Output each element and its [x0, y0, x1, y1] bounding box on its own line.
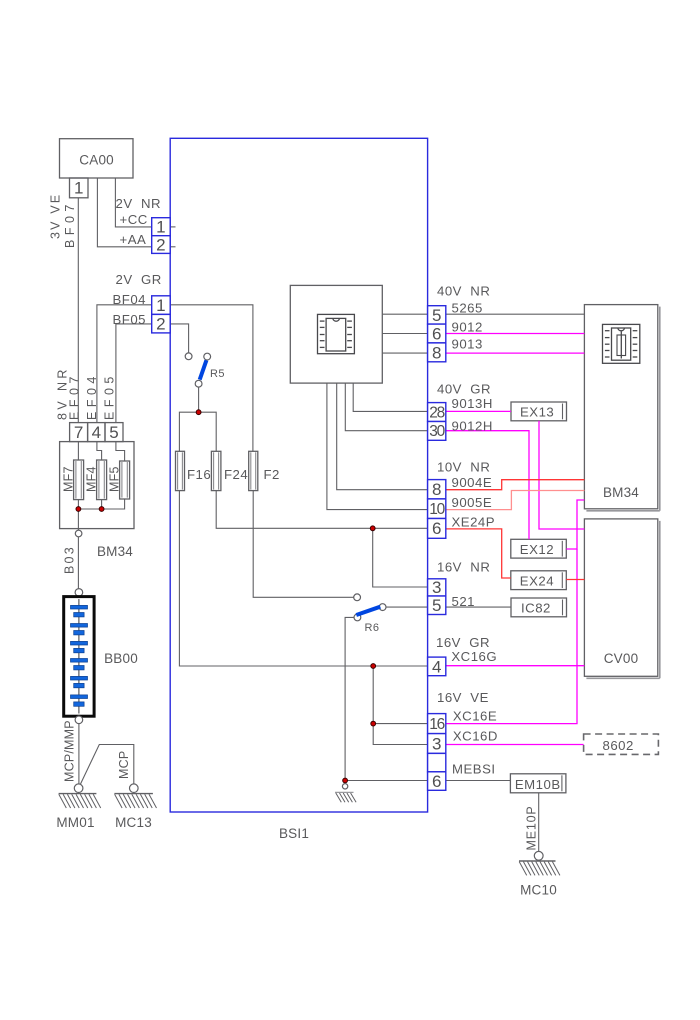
svg-text:F24: F24 [224, 467, 248, 482]
wire BF07 from CA00 pin1 to BM34 pin 7 [77, 198, 79, 423]
connector circle BB00 top [75, 589, 83, 597]
unused pin of BSI1 [428, 753, 446, 771]
svg-text:MC13: MC13 [115, 815, 152, 830]
wire CA00 pin1 to +AA (pin 2 BSI1) [97, 178, 151, 247]
svg-text:8602: 8602 [603, 738, 634, 753]
svg-text:40V NR: 40V NR [437, 284, 490, 299]
fuse-module icon inside BM34 [603, 324, 640, 363]
wire node N2 to pin 3 (16V NR) [373, 528, 428, 587]
svg-text:R6: R6 [365, 622, 380, 634]
maxi fuse MF5 [120, 461, 130, 499]
fuse carrier box BM34 (left) [60, 442, 134, 529]
svg-text:4: 4 [92, 423, 101, 442]
wire EX13 to CV00 (magenta) [539, 421, 584, 529]
svg-text:6: 6 [432, 772, 441, 791]
pin 10 of BSI1 (9005E) [428, 499, 446, 519]
wire internal module to pin 30 (9012H) [345, 383, 427, 431]
svg-text:10: 10 [429, 501, 445, 518]
connector box EX12 [511, 539, 567, 558]
svg-text:BF07: BF07 [63, 200, 77, 248]
svg-text:10V NR: 10V NR [437, 460, 490, 475]
wire pin 4 to MF4 [97, 442, 102, 460]
svg-text:3: 3 [432, 578, 441, 597]
pin 16 of BSI1 (XC16E) [428, 714, 446, 734]
svg-text:EX13: EX13 [520, 405, 554, 420]
module box BM34 (right) [584, 305, 659, 511]
ground MM01 [59, 784, 101, 808]
svg-text:EX24: EX24 [520, 573, 554, 588]
node N5 junction MEBSI/ground [343, 778, 348, 783]
wire MCP link MM01 to ground MC13 [81, 745, 134, 786]
svg-text:16V NR: 16V NR [437, 560, 490, 575]
connector circle BB00 bottom [75, 716, 83, 724]
svg-text:MF7: MF7 [62, 466, 76, 492]
svg-text:BM34: BM34 [603, 485, 639, 500]
optional module box 8602 (dashed) [584, 734, 659, 754]
internal module box of BSI1 [290, 285, 382, 383]
wire BF04 from BSI1 pin 1 to BM34 pin 4 [97, 305, 152, 423]
svg-text:BB00: BB00 [104, 651, 138, 666]
svg-text:IC82: IC82 [521, 601, 551, 616]
wire pin 7 to MF7 [77, 442, 79, 460]
pin 8 of BSI1 (9013) [428, 343, 446, 362]
svg-text:8: 8 [432, 343, 441, 362]
svg-text:BF05: BF05 [113, 312, 147, 327]
svg-text:BM34: BM34 [97, 544, 133, 559]
pin 5 of BM34 [105, 423, 123, 442]
wire BSI1 pin 2 to switch R5 [170, 324, 188, 353]
wire 9005E pin 10 to BM34 (salmon) [446, 491, 585, 510]
svg-text:2: 2 [156, 235, 165, 254]
svg-text:2: 2 [156, 315, 165, 334]
wire MCP/MMP from BB00 to ground MM01 [78, 720, 80, 786]
wire ME10P from EM10B to ground MC10 [538, 793, 540, 853]
svg-text:R5: R5 [210, 368, 225, 380]
wire CA00 to +CC (pin 1 BSI1) [115, 178, 151, 227]
pin 28 of BSI1 (9013H) [428, 403, 446, 422]
svg-text:9012: 9012 [452, 320, 483, 335]
pin 3 of BSI1 (16V NR) [428, 578, 446, 597]
svg-text:MCP: MCP [117, 751, 131, 779]
connector box CA00 [60, 139, 134, 178]
fuse F16 [176, 451, 185, 490]
battery BB00 [64, 597, 94, 717]
node N1 junction below R5 [196, 410, 201, 415]
maxi fuse MF4 [97, 460, 107, 500]
wire 9004E pin 8 to BM34 (red) [446, 480, 585, 490]
svg-text:9005E: 9005E [452, 495, 493, 510]
wire EX24 to CV00 (red) [566, 579, 584, 581]
wire node N4 to pin 3 XC16D [373, 723, 427, 725]
svg-text:MM01: MM01 [56, 815, 94, 830]
svg-text:6: 6 [432, 325, 441, 344]
pin 6 of BSI1 (XE24P) [428, 519, 446, 539]
svg-text:CV00: CV00 [604, 651, 639, 666]
svg-text:MF4: MF4 [85, 466, 99, 492]
wire R5 to node N1 [198, 387, 200, 412]
node N3 junction XC16G branch [371, 664, 376, 669]
wire R6 to pin 5 (521) [386, 606, 428, 608]
pin 1 of BSI1 (BF04) [152, 296, 171, 315]
wire R6 to ground node N5 [345, 617, 354, 780]
wire 9013H pin 28 to EX13 (magenta) [446, 410, 511, 412]
svg-text:EF07: EF07 [67, 372, 81, 420]
svg-text:16: 16 [429, 716, 444, 733]
svg-text:EX12: EX12 [520, 542, 554, 557]
connector box EX24 [511, 571, 567, 590]
svg-text:XC16G: XC16G [451, 649, 497, 664]
svg-text:B03: B03 [63, 545, 77, 574]
wire internal module to pin 6 (9012) [382, 333, 427, 335]
wire BF05 from BSI1 pin 2 to BM34 pin 5 [116, 324, 152, 423]
svg-text:3V VE: 3V VE [49, 193, 63, 239]
wire 9012H pin 30 to EX12 (magenta) [446, 431, 529, 540]
pin 7 of BM34 [70, 423, 88, 442]
wire 9012 pin 6 to BM34 (magenta) [446, 333, 585, 335]
svg-text:5: 5 [109, 423, 118, 442]
svg-text:1: 1 [156, 296, 165, 315]
wire fuse outputs bus [78, 499, 124, 509]
pin 4 of BM34 [88, 423, 105, 442]
svg-text:EF04: EF04 [85, 372, 99, 420]
fuse F24 [211, 451, 221, 490]
svg-text:+CC: +CC [120, 212, 148, 227]
svg-text:5265: 5265 [452, 301, 483, 316]
pin 3 of BSI1 (XC16D) [428, 734, 446, 754]
wire MF4 lead [101, 500, 103, 509]
wire internal module to pin 10 (9005E) [327, 383, 428, 510]
wire pin 5 to MF5 [116, 442, 125, 461]
svg-text:4: 4 [432, 657, 441, 676]
svg-text:XC16E: XC16E [453, 709, 497, 724]
svg-text:8: 8 [432, 480, 441, 499]
wire F2 to switch R6 [253, 491, 354, 598]
svg-text:MC10: MC10 [520, 883, 557, 898]
IC chip icon inside internal module [318, 314, 355, 353]
wire node N1 to fuse F16 [179, 412, 198, 451]
ground MC10 [519, 851, 560, 875]
ground inside BSI1 [335, 784, 356, 803]
svg-text:6: 6 [432, 519, 441, 538]
connector circle B03 [75, 530, 82, 537]
svg-text:9013H: 9013H [452, 396, 493, 411]
svg-text:9013: 9013 [452, 337, 483, 352]
maxi fuse MF7 [74, 460, 84, 500]
svg-text:28: 28 [429, 404, 444, 421]
ECU box BSI1 [170, 138, 427, 812]
pin 1 of CA00 [70, 178, 89, 198]
pin 2 of BSI1 (+AA) [152, 235, 171, 254]
ground MC13 [114, 784, 156, 808]
wire 9013 pin 8 to BM34 (magenta) [446, 352, 585, 354]
svg-text:2V GR: 2V GR [116, 272, 162, 287]
node N2 junction XE24P/pin3 [370, 526, 375, 531]
wire node N5 to pin 6 MEBSI [345, 780, 428, 782]
wire B03 from BM34 to battery BB00 [77, 529, 79, 593]
pin 5 of BSI1 (5265) [428, 306, 446, 325]
svg-text:EM10B: EM10B [515, 777, 561, 792]
wire F16 to pin 4 XC16G [179, 491, 427, 666]
svg-text:5: 5 [432, 306, 441, 325]
connector box IC82 [511, 598, 567, 617]
wire internal module to pin 8 (9013) [382, 352, 427, 354]
svg-text:9004E: 9004E [452, 475, 493, 490]
pin 4 of BSI1 (XC16G) [428, 657, 446, 676]
svg-text:7: 7 [74, 423, 83, 442]
svg-text:CA00: CA00 [79, 153, 114, 168]
wire XE24P pin 6 to EX24 (red) [446, 529, 511, 578]
node N7 MF4 junction [99, 507, 104, 512]
switch R5 [185, 353, 210, 387]
wire XC16E pin 16 to EX12/BM34 net (magenta) [446, 549, 577, 724]
wire pin 6 MEBSI to EM10B [446, 780, 511, 782]
pin 1 of BSI1 (+CC) [152, 218, 171, 237]
wire stub inside BSI1 at pin 2 +AA [170, 246, 175, 248]
node N4 junction XC16E branch [371, 721, 376, 726]
pin 2 of BSI1 (BF05) [152, 314, 171, 333]
svg-text:XE24P: XE24P [452, 515, 496, 530]
svg-text:F2: F2 [264, 467, 280, 482]
svg-text:MCP/MMP: MCP/MMP [63, 720, 77, 782]
svg-text:F16: F16 [187, 467, 211, 482]
svg-text:1: 1 [74, 179, 83, 198]
wire F24 to pin 6 XE24P [216, 491, 427, 529]
svg-text:521: 521 [452, 594, 476, 609]
svg-text:EF05: EF05 [103, 372, 117, 420]
svg-text:ME10P: ME10P [525, 806, 539, 851]
wire internal module to pin 28 (9013H) [353, 383, 427, 411]
wire pin 5 5265 to BM34 [446, 313, 585, 315]
svg-text:3: 3 [432, 734, 441, 753]
wire EX12 to BM34 (magenta) [566, 500, 584, 549]
pin 6 of BSI1 (MEBSI) [428, 772, 446, 791]
wire XC16D pin 3 to 8602 (magenta) [446, 744, 584, 746]
connector box EM10B [510, 774, 566, 793]
svg-text:+AA: +AA [120, 232, 147, 247]
svg-text:BSI1: BSI1 [279, 826, 309, 841]
wire internal module to pin 5 (5265) [382, 313, 427, 315]
svg-text:40V GR: 40V GR [437, 382, 491, 397]
wire BSI1 pin 1 to fuse F2 [170, 305, 253, 452]
wire internal module to pin 8 (9004E) [337, 383, 428, 490]
node N6 MF7 junction [76, 507, 81, 512]
svg-text:9012H: 9012H [452, 419, 493, 434]
wire pin 5 521 to IC82 [446, 606, 511, 608]
connector box EX13 [511, 402, 567, 421]
pin 6 of BSI1 (9012) [428, 324, 446, 343]
svg-text:BF04: BF04 [113, 292, 147, 307]
svg-text:2V NR: 2V NR [116, 196, 162, 211]
wire XC16G pin 4 to CV00 (magenta) [446, 665, 585, 667]
svg-text:16V VE: 16V VE [437, 690, 489, 705]
wire node N1 to fuse F24 [199, 412, 217, 451]
module box CV00 [584, 519, 659, 678]
svg-text:MF5: MF5 [108, 466, 122, 492]
wire stub inside BSI1 at pin 1 +CC [170, 226, 175, 228]
svg-text:1: 1 [156, 218, 165, 237]
svg-text:5: 5 [432, 596, 441, 615]
svg-text:30: 30 [429, 423, 445, 440]
wire node N3 to pin 16 XC16E [373, 666, 427, 745]
pin 5 of BSI1 (521) [428, 596, 446, 615]
pin 8 of BSI1 (9004E) [428, 480, 446, 500]
fuse F2 [249, 451, 258, 490]
svg-text:16V GR: 16V GR [436, 635, 490, 650]
svg-text:MEBSI: MEBSI [452, 762, 496, 777]
svg-text:XC16D: XC16D [453, 729, 498, 744]
wire MF7 to node N6 [77, 500, 79, 529]
pin 30 of BSI1 (9012H) [428, 422, 446, 441]
switch R6 [354, 594, 386, 621]
